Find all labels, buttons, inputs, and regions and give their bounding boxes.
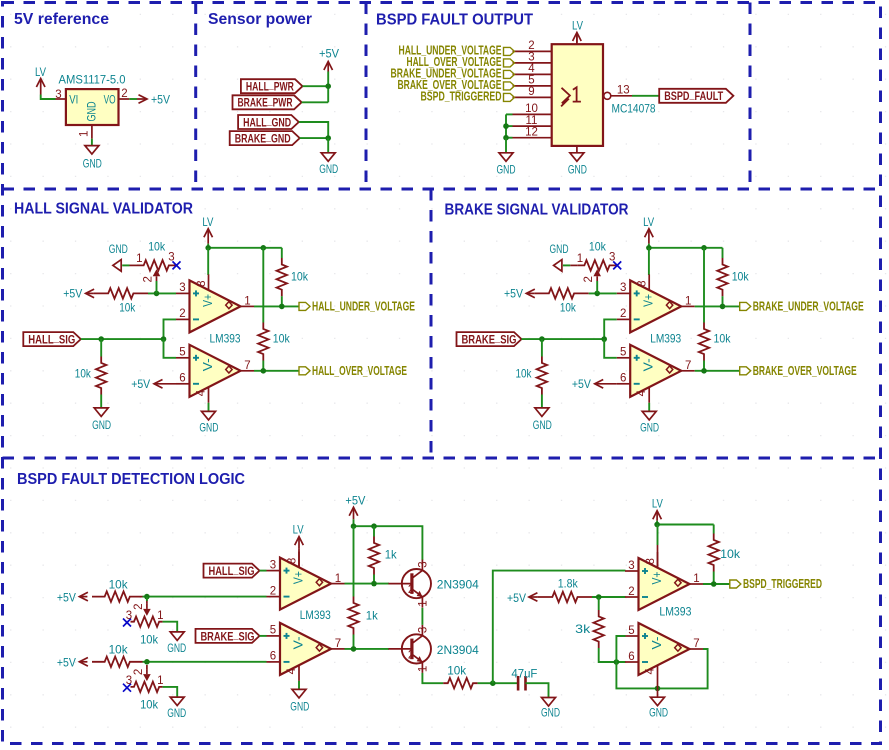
svg-text:2: 2 bbox=[408, 584, 414, 596]
svg-text:V-: V- bbox=[650, 637, 664, 650]
resistor 10k pull-up bbox=[717, 258, 749, 296]
power +5V bbox=[137, 92, 170, 106]
svg-text:1: 1 bbox=[685, 296, 691, 308]
wire bbox=[148, 292, 176, 294]
svg-text:3: 3 bbox=[528, 52, 534, 64]
wire bbox=[541, 395, 543, 408]
svg-text:GND: GND bbox=[109, 242, 128, 256]
wire wiper to node bbox=[596, 281, 598, 293]
resistor 10k pull-up bbox=[699, 323, 732, 361]
junction bbox=[701, 368, 707, 374]
junction bbox=[351, 523, 357, 529]
svg-text:5: 5 bbox=[270, 625, 276, 637]
title: HALL SIGNAL VALIDATOR bbox=[14, 201, 193, 218]
title: 5V reference bbox=[14, 11, 109, 28]
power +5V bbox=[57, 591, 88, 605]
ground bbox=[167, 632, 186, 655]
wire HALL_SIG bbox=[81, 338, 164, 340]
svg-text:+5V: +5V bbox=[345, 493, 365, 507]
value 2N3904 bbox=[437, 643, 479, 657]
wire Q1 emitter to Q2 collector bbox=[421, 608, 423, 625]
svg-text:7: 7 bbox=[244, 360, 250, 372]
svg-text:6: 6 bbox=[179, 373, 185, 385]
svg-text:2: 2 bbox=[620, 308, 626, 320]
value LM393 bbox=[650, 331, 681, 345]
potentiometer 10k trim bbox=[109, 239, 181, 282]
svg-text:LV: LV bbox=[643, 215, 654, 229]
svg-text:BSPD_​FAULT: BSPD_​FAULT bbox=[664, 87, 723, 103]
wire bbox=[41, 95, 56, 100]
svg-text:LM393: LM393 bbox=[659, 605, 691, 619]
svg-text:10k: 10k bbox=[447, 664, 467, 678]
junction bbox=[490, 680, 496, 686]
junction bbox=[371, 581, 377, 587]
resistor 10k pull-up bbox=[258, 323, 291, 361]
wire bbox=[298, 681, 300, 690]
global label HALL_SIG bbox=[204, 562, 260, 578]
svg-text:5: 5 bbox=[528, 75, 534, 87]
transistor Q2 2N3904 bbox=[388, 625, 431, 673]
wire to V+ pin bbox=[648, 248, 650, 275]
svg-text:4: 4 bbox=[645, 668, 657, 675]
svg-text:VO: VO bbox=[104, 94, 116, 106]
ground bbox=[541, 698, 560, 720]
resistor 10k pull-up bbox=[277, 258, 309, 296]
junction bbox=[261, 245, 267, 251]
svg-text:4: 4 bbox=[636, 389, 648, 396]
junction bbox=[601, 336, 607, 342]
svg-text:3: 3 bbox=[270, 559, 276, 571]
wire bbox=[281, 296, 283, 306]
svg-text:BRAKE_OVER_VOLTAGE: BRAKE_OVER_VOLTAGE bbox=[753, 364, 857, 378]
value LM393 bbox=[300, 608, 331, 622]
junction bbox=[701, 245, 707, 251]
svg-text:1: 1 bbox=[418, 600, 430, 606]
global label HALL_SIG bbox=[23, 331, 81, 347]
wire bbox=[353, 526, 355, 596]
junction bbox=[351, 646, 357, 652]
svg-text:BSPD FAULT OUTPUT: BSPD FAULT OUTPUT bbox=[376, 12, 534, 29]
svg-text:10k: 10k bbox=[148, 239, 166, 253]
svg-text:10k: 10k bbox=[140, 698, 159, 712]
wire bbox=[100, 339, 102, 356]
svg-text:+5V: +5V bbox=[504, 287, 523, 301]
global label BSPD_FAULT bbox=[659, 87, 733, 103]
power +5V bbox=[57, 656, 88, 670]
power +5V bbox=[504, 287, 535, 301]
junction bbox=[594, 291, 600, 297]
svg-text:V+: V+ bbox=[642, 294, 656, 307]
wire bbox=[100, 395, 102, 408]
svg-text:9: 9 bbox=[528, 86, 534, 98]
wire bbox=[208, 403, 210, 412]
wire to V+ pin bbox=[207, 248, 209, 275]
svg-text:13: 13 bbox=[617, 85, 630, 97]
power +5V bbox=[507, 591, 538, 605]
svg-text:GND: GND bbox=[167, 706, 186, 720]
op-amp U? LM393 unit B bbox=[176, 345, 254, 403]
junction bbox=[98, 336, 104, 342]
ground bbox=[83, 146, 102, 171]
wire bbox=[722, 296, 724, 306]
junction bbox=[144, 594, 150, 600]
wire bbox=[262, 361, 264, 371]
wire bbox=[163, 622, 178, 632]
junction bbox=[261, 368, 267, 374]
global label HALL_GND bbox=[238, 113, 299, 129]
svg-text:GND: GND bbox=[92, 418, 111, 432]
svg-text:LV: LV bbox=[652, 497, 663, 511]
hierarchical label HALL_UNDER_VOLTAGE bbox=[399, 44, 515, 58]
wire bbox=[143, 596, 147, 598]
power +5V bbox=[345, 493, 365, 519]
wire comparator B output bbox=[254, 370, 299, 372]
title: BSPD FAULT OUTPUT bbox=[376, 12, 534, 29]
ground bbox=[290, 689, 309, 713]
capacitor C? 47uF bbox=[511, 666, 537, 690]
wire bbox=[648, 244, 650, 248]
wire to inverting input bbox=[604, 319, 617, 339]
svg-text:2: 2 bbox=[179, 308, 185, 320]
power LV bbox=[293, 523, 304, 549]
wire bbox=[262, 248, 264, 323]
svg-text:GND: GND bbox=[550, 242, 569, 256]
svg-text:7: 7 bbox=[685, 360, 691, 372]
junction bbox=[654, 522, 660, 528]
wire output bbox=[703, 583, 730, 585]
svg-text:3: 3 bbox=[126, 610, 132, 622]
svg-text:LM393: LM393 bbox=[650, 331, 681, 345]
junction bbox=[154, 291, 160, 297]
svg-text:+5V: +5V bbox=[57, 591, 76, 605]
potentiometer 10k trim bbox=[550, 239, 622, 282]
ground bbox=[649, 697, 668, 719]
wire bbox=[260, 570, 267, 572]
svg-text:1: 1 bbox=[79, 131, 91, 137]
svg-text:2: 2 bbox=[270, 585, 276, 597]
svg-text:3: 3 bbox=[418, 627, 430, 633]
svg-text:3: 3 bbox=[609, 252, 615, 264]
junction bbox=[539, 336, 545, 342]
svg-text:HALL_​SIG: HALL_​SIG bbox=[209, 562, 255, 578]
regulator U? AMS1117-5.0 bbox=[55, 75, 129, 139]
OR gate U? MC14078 bbox=[513, 34, 656, 153]
wire bbox=[353, 635, 355, 649]
svg-text:1k: 1k bbox=[366, 609, 379, 623]
wire bbox=[713, 572, 715, 585]
resistor 10k pulldown bbox=[516, 357, 548, 395]
resistor 1.8k bbox=[538, 576, 592, 602]
wire bbox=[506, 125, 513, 127]
svg-text:3: 3 bbox=[168, 252, 174, 264]
power LV bbox=[202, 215, 213, 244]
title: BRAKE SIGNAL VALIDATOR bbox=[445, 202, 629, 219]
svg-text:+5V: +5V bbox=[507, 591, 526, 605]
svg-text:3: 3 bbox=[418, 561, 430, 567]
svg-text:5: 5 bbox=[179, 347, 185, 359]
svg-text:BRAKE SIGNAL VALIDATOR: BRAKE SIGNAL VALIDATOR bbox=[445, 202, 629, 219]
wire bbox=[632, 95, 659, 97]
junction bbox=[614, 659, 620, 665]
wire bbox=[505, 138, 507, 153]
wire +5V rail to Q1 collector bbox=[354, 526, 423, 560]
svg-text:BSPD FAULT DETECTION LOGIC: BSPD FAULT DETECTION LOGIC bbox=[17, 471, 245, 488]
resistor 10k bbox=[443, 664, 477, 689]
svg-text:BRAKE_UNDER_VOLTAGE: BRAKE_UNDER_VOLTAGE bbox=[753, 300, 864, 314]
junction bbox=[503, 135, 509, 141]
wire bbox=[303, 85, 329, 87]
wire to V+ pin bbox=[657, 525, 659, 546]
global label BRAKE_GND bbox=[230, 130, 300, 146]
op-amp U? LM393 unit B bbox=[617, 345, 695, 403]
hierarchical label HALL_UNDER_VOLTAGE bbox=[299, 300, 415, 314]
svg-text:10k: 10k bbox=[732, 270, 750, 284]
svg-text:5: 5 bbox=[628, 625, 634, 637]
junction bbox=[720, 304, 726, 310]
svg-text:5: 5 bbox=[620, 347, 626, 359]
svg-text:3: 3 bbox=[628, 560, 634, 572]
svg-text:10k: 10k bbox=[714, 332, 732, 346]
op-amp U? LM393 unit B bbox=[267, 623, 345, 681]
hierarchical label BRAKE_UNDER_VOLTAGE bbox=[391, 67, 515, 81]
wire BRAKE_SIG bbox=[522, 338, 605, 340]
svg-text:GND: GND bbox=[199, 421, 218, 435]
wire bbox=[373, 575, 375, 584]
svg-text:BSPD_TRIGGERED: BSPD_TRIGGERED bbox=[421, 90, 502, 104]
svg-text:HALL_​SIG: HALL_​SIG bbox=[28, 331, 75, 347]
svg-text:GND: GND bbox=[290, 699, 309, 713]
wire bbox=[163, 687, 178, 697]
svg-text:2: 2 bbox=[583, 276, 595, 282]
svg-text:11: 11 bbox=[526, 115, 538, 127]
op-amp U? LM393 unit B bbox=[625, 623, 703, 681]
power LV bbox=[643, 215, 654, 244]
value LM393 bbox=[210, 331, 241, 345]
wire bbox=[722, 248, 724, 258]
wire bbox=[506, 113, 513, 115]
power +5V bbox=[131, 377, 176, 391]
svg-text:BSPD_TRIGGERED: BSPD_TRIGGERED bbox=[743, 577, 822, 591]
svg-text:5V reference: 5V reference bbox=[14, 11, 109, 28]
svg-text:+5V: +5V bbox=[319, 47, 339, 61]
resistor 10k bbox=[92, 643, 143, 668]
svg-text:GND: GND bbox=[541, 706, 560, 720]
hierarchical label HALL_OVER_VOLTAGE bbox=[407, 55, 515, 69]
op-amp U? LM393 unit A bbox=[176, 274, 254, 332]
svg-text:LV: LV bbox=[35, 65, 46, 79]
svg-text:10k: 10k bbox=[140, 633, 159, 647]
junction bbox=[325, 83, 331, 89]
hierarchical label BRAKE_OVER_VOLTAGE bbox=[398, 78, 515, 92]
svg-text:2: 2 bbox=[528, 40, 534, 52]
ground bbox=[167, 697, 186, 720]
svg-text:7: 7 bbox=[335, 638, 341, 650]
svg-text:+5V: +5V bbox=[131, 377, 150, 391]
svg-text:12: 12 bbox=[525, 127, 538, 139]
svg-text:1: 1 bbox=[335, 573, 341, 585]
wire row2 to pin6 bbox=[143, 661, 267, 663]
wire to inverting input bbox=[164, 319, 177, 339]
svg-text:6: 6 bbox=[270, 651, 276, 663]
svg-text:10k: 10k bbox=[109, 643, 129, 657]
wire bbox=[506, 137, 513, 139]
wire bbox=[656, 521, 658, 525]
svg-text:LV: LV bbox=[293, 523, 304, 537]
svg-text:3: 3 bbox=[55, 89, 61, 101]
wire comparator A output bbox=[254, 305, 299, 307]
power +5V bbox=[572, 377, 617, 391]
svg-text:47uF: 47uF bbox=[511, 666, 537, 680]
power +5V bbox=[63, 287, 94, 301]
svg-text:BRAKE_​GND: BRAKE_​GND bbox=[235, 130, 291, 146]
svg-text:+5V: +5V bbox=[57, 656, 76, 670]
svg-text:LM393: LM393 bbox=[210, 331, 241, 345]
svg-text:1: 1 bbox=[157, 610, 163, 622]
hierarchical label HALL_OVER_VOLTAGE bbox=[299, 364, 407, 378]
wire bbox=[129, 98, 137, 100]
svg-text:HALL_​GND: HALL_​GND bbox=[243, 113, 291, 129]
global label BRAKE_PWR bbox=[233, 94, 302, 110]
svg-text:10k: 10k bbox=[273, 332, 291, 346]
svg-text:AMS1117-5.0: AMS1117-5.0 bbox=[59, 75, 126, 87]
svg-text:GND: GND bbox=[649, 705, 668, 719]
wire LV rail bbox=[208, 247, 282, 249]
svg-text:10k: 10k bbox=[589, 239, 607, 253]
resistor 10k bbox=[94, 288, 148, 314]
svg-text:V+: V+ bbox=[292, 571, 306, 584]
resistor 1k bbox=[369, 537, 398, 575]
svg-text:1: 1 bbox=[244, 296, 250, 308]
junction bbox=[144, 659, 150, 665]
svg-text:6: 6 bbox=[628, 651, 634, 663]
ground bbox=[640, 411, 659, 434]
wire bbox=[122, 264, 129, 266]
value LM393 bbox=[659, 605, 691, 619]
wire bbox=[302, 101, 329, 103]
junction bbox=[325, 135, 331, 141]
wire gate unused inputs bbox=[505, 114, 507, 137]
svg-text:V-: V- bbox=[292, 636, 306, 649]
junction bbox=[205, 245, 211, 251]
svg-text:BRAKE_​SIG: BRAKE_​SIG bbox=[462, 331, 517, 347]
potentiometer 10k trim bbox=[123, 665, 164, 712]
wire bbox=[598, 597, 600, 610]
resistor 10k pulldown bbox=[75, 357, 107, 395]
wire RC node to pin3 bbox=[493, 571, 626, 684]
junction bbox=[655, 686, 661, 692]
wire bbox=[146, 597, 148, 601]
svg-text:GND: GND bbox=[568, 163, 587, 177]
wire comparator output to Q1 base bbox=[345, 583, 390, 585]
wire feedback loop bbox=[616, 636, 707, 688]
svg-text:10k: 10k bbox=[720, 547, 741, 561]
svg-text:2N3904: 2N3904 bbox=[437, 578, 479, 592]
wire comparator B output bbox=[695, 370, 740, 372]
svg-text:10k: 10k bbox=[516, 367, 533, 381]
wire bbox=[656, 524, 658, 526]
svg-text:3: 3 bbox=[179, 282, 185, 294]
potentiometer 10k trim bbox=[123, 600, 164, 647]
svg-text:2: 2 bbox=[408, 649, 414, 661]
svg-text:HALL SIGNAL VALIDATOR: HALL SIGNAL VALIDATOR bbox=[14, 201, 193, 218]
op-amp U? LM393 unit A bbox=[625, 552, 703, 610]
wire comparator output to Q2 base bbox=[345, 648, 390, 650]
wire bbox=[327, 72, 329, 103]
svg-text:GND: GND bbox=[497, 163, 516, 177]
svg-text:3: 3 bbox=[620, 282, 626, 294]
power LV bbox=[572, 19, 583, 43]
global label BRAKE_SIG bbox=[457, 331, 522, 347]
wire row1 to pin2 bbox=[147, 596, 267, 598]
svg-text:Sensor power: Sensor power bbox=[208, 11, 312, 28]
svg-text:V-: V- bbox=[201, 358, 215, 371]
resistor 1k bbox=[348, 597, 378, 635]
svg-text:+5V: +5V bbox=[151, 92, 170, 106]
hierarchical label BSPD_TRIGGERED bbox=[421, 90, 515, 104]
wire bbox=[260, 635, 267, 637]
svg-text:1.8k: 1.8k bbox=[558, 576, 579, 590]
svg-text:10k: 10k bbox=[560, 301, 577, 315]
svg-text:3k: 3k bbox=[575, 622, 591, 636]
svg-text:10k: 10k bbox=[291, 270, 309, 284]
wire bbox=[300, 137, 329, 139]
svg-text:HALL_​PWR: HALL_​PWR bbox=[246, 78, 294, 94]
wire bbox=[563, 264, 570, 266]
svg-text:GND: GND bbox=[640, 421, 659, 435]
svg-text:V-: V- bbox=[642, 358, 656, 371]
wire bbox=[327, 138, 329, 153]
ground bbox=[497, 153, 516, 177]
wire bbox=[541, 339, 543, 356]
wire comparator A output bbox=[695, 305, 740, 307]
transistor Q1 2N3904 bbox=[388, 560, 431, 608]
svg-text:8: 8 bbox=[287, 558, 299, 564]
svg-text:1: 1 bbox=[136, 253, 142, 265]
svg-text:4: 4 bbox=[286, 667, 298, 674]
wire bbox=[478, 682, 518, 684]
svg-text:2: 2 bbox=[121, 88, 127, 100]
wire bbox=[703, 361, 705, 371]
resistor 10k bbox=[534, 288, 588, 314]
resistor 3k bbox=[575, 610, 604, 648]
junction bbox=[646, 245, 652, 251]
wire LV rail bbox=[657, 524, 714, 526]
svg-text:V+: V+ bbox=[201, 294, 215, 307]
wire bbox=[713, 525, 715, 534]
wire wiper to node bbox=[156, 281, 158, 293]
hierarchical label BRAKE_OVER_VOLTAGE bbox=[740, 364, 857, 378]
svg-text:2: 2 bbox=[133, 669, 145, 675]
wire bbox=[299, 122, 328, 138]
svg-text:V+: V+ bbox=[650, 572, 664, 585]
svg-text:GND: GND bbox=[167, 641, 186, 655]
svg-text:10k: 10k bbox=[119, 301, 136, 315]
junction bbox=[161, 336, 167, 342]
title: Sensor power bbox=[208, 11, 312, 28]
wire bbox=[592, 596, 626, 598]
wire bbox=[703, 248, 705, 323]
junction bbox=[279, 304, 285, 310]
ground bbox=[319, 153, 338, 176]
resistor 10k bbox=[92, 577, 143, 602]
value 2N3904 bbox=[437, 578, 479, 592]
svg-text:4: 4 bbox=[528, 63, 535, 75]
ground bbox=[199, 411, 218, 434]
svg-text:BRAKE_​PWR: BRAKE_​PWR bbox=[238, 94, 293, 110]
svg-text:GND: GND bbox=[533, 418, 552, 432]
svg-text:HALL_OVER_VOLTAGE: HALL_OVER_VOLTAGE bbox=[312, 364, 407, 378]
resistor 10k pull-up bbox=[709, 534, 742, 572]
